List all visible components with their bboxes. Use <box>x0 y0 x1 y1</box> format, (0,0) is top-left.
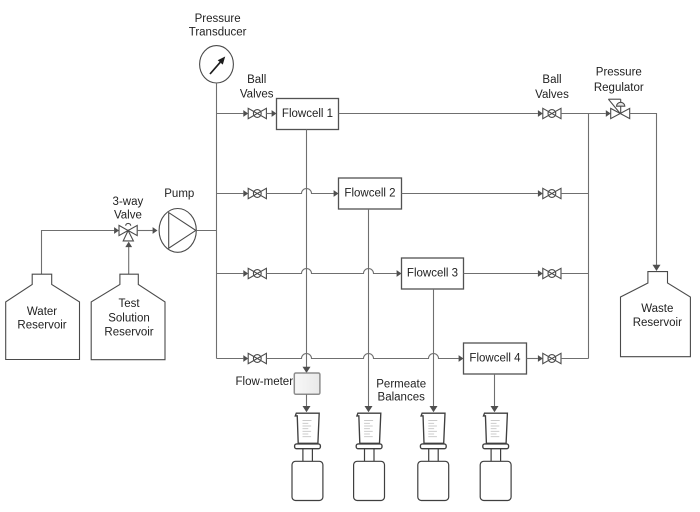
wire: row 1 manifold to ball valve <box>217 110 249 117</box>
ball valve B4 (row 4 left) <box>248 353 266 363</box>
wire: manifold vertical from gauge to row 4 <box>216 83 218 359</box>
wire: flow-meter to balance 1 <box>303 394 311 412</box>
pressure regulator valve <box>608 99 629 118</box>
wire: row 3 valve to Flowcell 3 with jumps <box>266 269 401 277</box>
svg-text:Flowcell 2: Flowcell 2 <box>344 188 395 200</box>
wire: row 1 valve to pressure regulator <box>561 110 611 117</box>
Flowcell 2 box <box>339 178 402 209</box>
wire: row 3 valve to collector <box>561 273 589 275</box>
balance stem 4 <box>491 449 501 462</box>
wire: row 2 manifold to ball valve <box>217 190 249 197</box>
wire: row 4 Flowcell 4 to right ball valve <box>527 355 543 362</box>
permeate graduated cylinder 1 <box>295 413 321 448</box>
balance stem 2 <box>365 449 375 462</box>
wire: 3-way valve to pump <box>137 227 157 234</box>
balance stem 3 <box>429 449 439 462</box>
pressure transducer gauge <box>200 46 234 83</box>
permeate balance 4 <box>480 461 511 500</box>
wire: row 1 valve to Flowcell 1 <box>266 110 276 117</box>
ball valve B3 (row 3 left) <box>248 268 266 278</box>
svg-text:Flowcell 4: Flowcell 4 <box>469 353 521 365</box>
3-way valve <box>119 223 137 240</box>
ball valve B7 (row 3 right) <box>543 268 561 278</box>
wire: row 4 valve to Flowcell 4 with jumps <box>266 354 463 362</box>
balance stem 1 <box>303 449 313 462</box>
svg-text:Flow-meter: Flow-meter <box>236 376 294 388</box>
permeate balance 1 <box>292 461 323 500</box>
waste reservoir <box>621 272 691 357</box>
Flowcell 4 box <box>464 343 527 374</box>
wire: test solution reservoir to 3-way valve <box>125 242 132 275</box>
wire: row 3 Flowcell 3 to right ball valve <box>464 270 543 277</box>
wire: row 1 Flowcell 1 to right ball valve <box>339 110 543 117</box>
wire: row 2 Flowcell 2 to right ball valve <box>402 190 543 197</box>
svg-text:Pump: Pump <box>164 188 194 200</box>
wire: pump to manifold <box>196 230 216 232</box>
svg-text:3-wayValve: 3-wayValve <box>113 196 144 222</box>
wire: row 4 valve to collector <box>561 358 589 360</box>
wire: row 3 manifold to ball valve <box>217 270 249 277</box>
wire: Flowcell 1 to flow-meter <box>303 130 311 374</box>
ball valve B6 (row 2 right) <box>543 188 561 198</box>
wire: right collector vertical <box>588 114 590 359</box>
flow-meter <box>294 373 320 394</box>
water reservoir <box>6 274 80 359</box>
wire: water reservoir to 3-way valve <box>42 227 120 274</box>
test solution reservoir <box>91 274 165 360</box>
permeate graduated cylinder 3 <box>420 413 446 448</box>
permeate graduated cylinder 4 <box>483 413 509 448</box>
permeate balance 2 <box>354 461 385 500</box>
wire: row 2 valve to Flowcell 2 with jump <box>266 189 338 197</box>
wire: Flowcell 4 to balance 4 <box>491 374 499 412</box>
svg-text:Flowcell 3: Flowcell 3 <box>407 268 458 280</box>
svg-text:Flowcell 1: Flowcell 1 <box>282 108 333 120</box>
ball valve B5 (row 1 right) <box>543 108 561 118</box>
ball valve B2 (row 2 left) <box>248 188 266 198</box>
pump <box>159 209 196 253</box>
permeate graduated cylinder 2 <box>356 413 382 448</box>
svg-text:PermeateBalances: PermeateBalances <box>376 378 426 403</box>
ball valve B1 (row 1 left) <box>248 108 266 118</box>
svg-text:PressureTransducer: PressureTransducer <box>189 13 247 39</box>
ball valve B8 (row 4 right) <box>543 353 561 363</box>
Flowcell 1 box <box>277 99 339 130</box>
wire: Flowcell 2 to balance 2 <box>365 209 373 412</box>
permeate balance 3 <box>418 461 449 500</box>
wire: row 2 valve to collector <box>561 193 589 195</box>
wire: row 4 manifold to ball valve <box>217 355 249 362</box>
wire: Flowcell 3 to balance 3 <box>430 289 438 412</box>
wire: regulator to waste reservoir <box>630 114 661 272</box>
Flowcell 3 box <box>402 258 464 289</box>
